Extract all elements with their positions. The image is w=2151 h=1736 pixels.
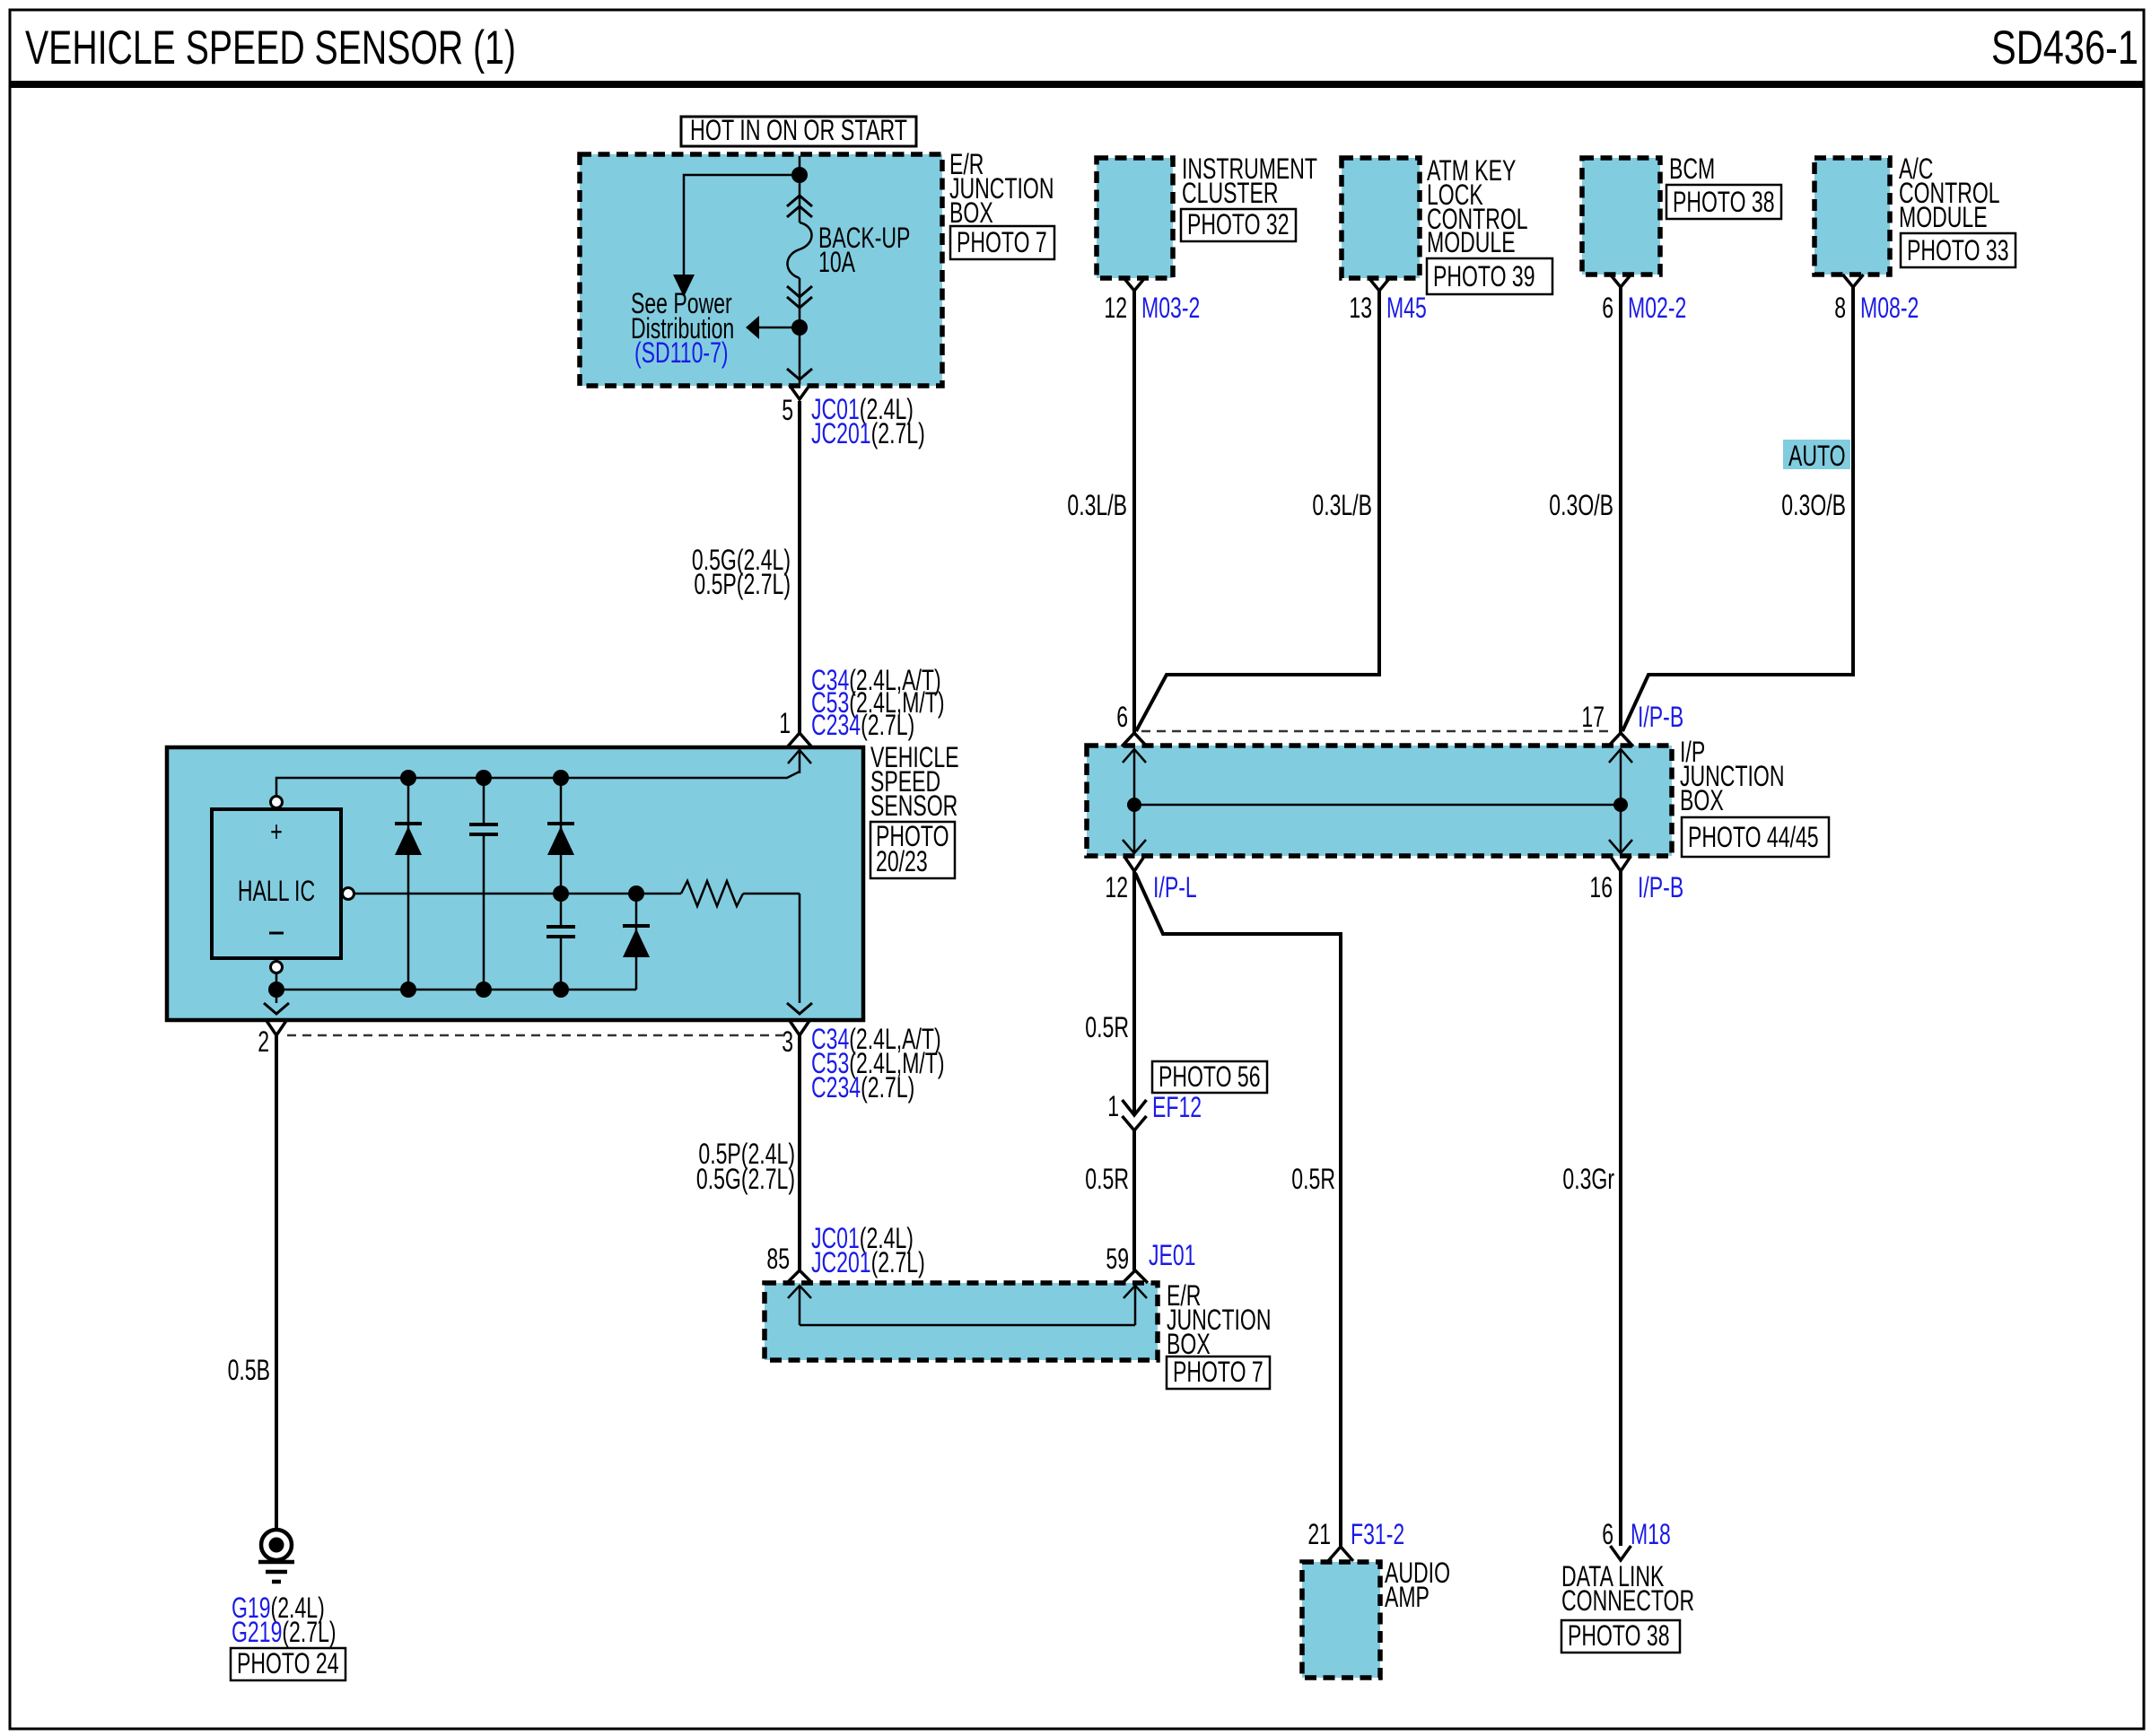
VSS internal top rail xyxy=(276,772,800,796)
svg-text:SD436-1: SD436-1 xyxy=(1991,22,2138,74)
instrument cluster pin 12 connector xyxy=(1124,278,1145,291)
audio amp box xyxy=(1302,1562,1380,1678)
svg-text:PHOTO 38: PHOTO 38 xyxy=(1568,1619,1670,1652)
svg-text:(SD110-7): (SD110-7) xyxy=(634,336,729,369)
PHOTO 33 label xyxy=(1901,233,2015,267)
I/P pin 6 connector xyxy=(1122,733,1147,746)
wire branch to See Power Distribution xyxy=(684,175,800,275)
svg-text:C234: C234 xyxy=(811,709,861,741)
svg-text:G219: G219 xyxy=(232,1616,282,1648)
svg-text:PHOTO 56: PHOTO 56 xyxy=(1159,1060,1261,1093)
svg-text:6: 6 xyxy=(1116,701,1128,733)
svg-text:JC201: JC201 xyxy=(811,1246,871,1278)
svg-text:PHOTO 38: PHOTO 38 xyxy=(1673,186,1775,218)
svg-text:21: 21 xyxy=(1307,1518,1331,1550)
header divider xyxy=(10,81,2144,88)
node dot at fuse top xyxy=(791,167,808,183)
svg-text:MODULE: MODULE xyxy=(1899,201,1988,233)
svg-text:0.5B: 0.5B xyxy=(228,1354,270,1386)
E/R junction box (lower) xyxy=(765,1283,1158,1360)
wire I/P pin16 to data link connector xyxy=(1619,871,1622,1546)
svg-text:0.3O/B: 0.3O/B xyxy=(1549,489,1613,521)
svg-text:0.5G(2.7L): 0.5G(2.7L) xyxy=(696,1163,795,1195)
VSS pin 3 connector xyxy=(790,1020,810,1035)
svg-text:(2.7L): (2.7L) xyxy=(871,1246,925,1278)
resistor R1 xyxy=(681,881,743,906)
PHOTO 7 label (top) xyxy=(950,226,1054,259)
capacitor C1 branch xyxy=(483,778,485,824)
PHOTO 38 label (data link) xyxy=(1561,1620,1680,1653)
svg-text:17: 17 xyxy=(1581,701,1605,733)
svg-text:JE01: JE01 xyxy=(1149,1239,1196,1271)
svg-text:6: 6 xyxy=(1602,292,1613,324)
node dot at fuse bottom xyxy=(791,319,808,336)
PHOTO 24 label xyxy=(231,1648,345,1680)
svg-text:+: + xyxy=(270,816,283,848)
svg-text:(2.7L): (2.7L) xyxy=(282,1616,336,1648)
ground G19/G219 xyxy=(261,1530,292,1560)
svg-text:PHOTO 7: PHOTO 7 xyxy=(1173,1356,1263,1388)
svg-text:12: 12 xyxy=(1104,292,1127,324)
BCM box xyxy=(1582,158,1660,275)
A/C pin 8 connector xyxy=(1843,275,1864,287)
PHOTO 38 label (BCM) xyxy=(1666,185,1781,219)
svg-text:CONNECTOR: CONNECTOR xyxy=(1561,1584,1694,1617)
hall IC box xyxy=(212,809,341,958)
svg-text:JC201: JC201 xyxy=(811,417,871,449)
E/R lower internal bus xyxy=(799,1286,801,1325)
diode D1 branch xyxy=(407,778,410,990)
svg-text:12: 12 xyxy=(1105,871,1128,903)
svg-text:BOX: BOX xyxy=(1680,784,1724,816)
svg-text:(2.7L): (2.7L) xyxy=(861,1071,914,1104)
svg-text:0.3O/B: 0.3O/B xyxy=(1781,489,1846,521)
I/P pin 12 connector xyxy=(1124,856,1145,871)
pin 5 connector xyxy=(790,385,810,399)
svg-text:BOX: BOX xyxy=(949,196,993,229)
wire pin5 to VSS pin1 xyxy=(798,401,801,733)
svg-text:1: 1 xyxy=(1107,1090,1119,1122)
svg-text:13: 13 xyxy=(1349,292,1372,324)
svg-text:10A: 10A xyxy=(818,246,855,278)
svg-text:I/P-B: I/P-B xyxy=(1638,871,1683,903)
PHOTO 32 label xyxy=(1181,209,1296,241)
PHOTO 20/23 label xyxy=(870,822,955,878)
VSS internal bottom rail xyxy=(276,989,636,991)
svg-text:PHOTO 33: PHOTO 33 xyxy=(1907,234,2009,266)
VSS connector dashed boundary xyxy=(287,1034,789,1037)
svg-text:M02-2: M02-2 xyxy=(1628,292,1686,324)
svg-text:HALL IC: HALL IC xyxy=(238,875,315,907)
diode D3 branch xyxy=(635,894,638,990)
svg-text:BCM: BCM xyxy=(1669,153,1715,185)
svg-text:F31-2: F31-2 xyxy=(1351,1518,1404,1550)
pin 85 connector xyxy=(787,1270,812,1283)
svg-text:59: 59 xyxy=(1106,1243,1129,1275)
svg-text:AUTO: AUTO xyxy=(1788,440,1846,472)
HOT IN ON OR START label xyxy=(681,117,916,146)
wire I/P pin12 to EF12 and JE01 xyxy=(1132,871,1136,1112)
svg-text:0.3Gr: 0.3Gr xyxy=(1562,1163,1614,1195)
hall IC output rail with resistor xyxy=(343,888,354,900)
svg-text:8: 8 xyxy=(1834,292,1846,324)
wire VSS pin2 to ground xyxy=(275,1035,278,1530)
E/R junction box (top) xyxy=(580,154,942,386)
svg-text:MODULE: MODULE xyxy=(1427,226,1516,258)
data link M18 connector xyxy=(1611,1546,1631,1560)
ATM pin 13 connector xyxy=(1369,278,1390,291)
svg-text:PHOTO 32: PHOTO 32 xyxy=(1187,208,1290,240)
hall IC bottom terminal xyxy=(271,962,283,973)
svg-text:HOT IN ON OR START: HOT IN ON OR START xyxy=(690,114,907,146)
svg-text:AMP: AMP xyxy=(1385,1581,1430,1613)
pin 59 connector xyxy=(1123,1270,1148,1283)
svg-text:20/23: 20/23 xyxy=(876,845,928,877)
I/P internal bus xyxy=(1133,749,1136,805)
instrument cluster box xyxy=(1097,158,1173,278)
vehicle speed sensor box xyxy=(167,747,863,1020)
svg-text:(2.7L): (2.7L) xyxy=(871,417,925,449)
svg-text:0.5R: 0.5R xyxy=(1085,1163,1129,1195)
svg-text:5: 5 xyxy=(782,394,793,426)
svg-text:M18: M18 xyxy=(1631,1518,1671,1550)
svg-text:VEHICLE SPEED SENSOR (1): VEHICLE SPEED SENSOR (1) xyxy=(25,22,516,74)
svg-text:C234: C234 xyxy=(811,1071,861,1104)
I/P pin 16 connector xyxy=(1611,856,1631,871)
diode D2 / capacitor C2 branch xyxy=(560,778,563,927)
I/P pin 17 connector xyxy=(1608,733,1633,746)
PHOTO 44/45 label xyxy=(1682,817,1829,857)
svg-text:85: 85 xyxy=(766,1243,790,1275)
hall IC top terminal xyxy=(271,797,283,808)
svg-text:CLUSTER: CLUSTER xyxy=(1182,177,1279,209)
wire cluster to I/P pin 6 xyxy=(1132,291,1136,733)
hall bottom connection xyxy=(275,973,278,1003)
svg-text:PHOTO 7: PHOTO 7 xyxy=(957,226,1047,258)
left arrow from node xyxy=(759,327,800,329)
wire VSS pin3 to E/R 85 xyxy=(798,1035,801,1270)
connector boundary dashed line above I/P box xyxy=(1141,730,1613,733)
svg-text:0.5P(2.7L): 0.5P(2.7L) xyxy=(694,568,791,600)
svg-text:M08-2: M08-2 xyxy=(1860,292,1919,324)
svg-text:M03-2: M03-2 xyxy=(1141,292,1200,324)
ATM key lock control module box xyxy=(1342,158,1420,278)
svg-text:SENSOR: SENSOR xyxy=(870,789,957,822)
svg-text:3: 3 xyxy=(782,1025,793,1058)
svg-text:16: 16 xyxy=(1589,871,1613,903)
wire to pin 3 xyxy=(799,894,801,1003)
svg-text:0.5R: 0.5R xyxy=(1085,1011,1129,1043)
svg-text:M45: M45 xyxy=(1386,292,1427,324)
PHOTO 7 label (lower) xyxy=(1167,1357,1270,1389)
BCM pin 6 connector xyxy=(1611,275,1631,287)
wire stub from box top to node xyxy=(799,156,801,175)
fuse BACK-UP 10A wire with arrows xyxy=(799,175,801,222)
svg-text:EF12: EF12 xyxy=(1152,1091,1202,1123)
svg-text:0.5R: 0.5R xyxy=(1291,1163,1335,1195)
PHOTO 39 label xyxy=(1427,258,1552,294)
svg-text:2: 2 xyxy=(258,1025,269,1058)
svg-text:I/P-L: I/P-L xyxy=(1153,871,1197,903)
svg-text:PHOTO 44/45: PHOTO 44/45 xyxy=(1688,821,1819,853)
I/P junction box xyxy=(1087,746,1672,856)
svg-text:PHOTO 39: PHOTO 39 xyxy=(1433,260,1535,292)
A/C control module box xyxy=(1814,158,1890,275)
svg-text:I/P-B: I/P-B xyxy=(1638,701,1683,733)
wire from node to pin 5 xyxy=(799,327,801,384)
svg-text:PHOTO 24: PHOTO 24 xyxy=(237,1647,339,1679)
svg-text:0.3L/B: 0.3L/B xyxy=(1312,489,1372,521)
svg-text:6: 6 xyxy=(1602,1518,1613,1550)
PHOTO 56 label xyxy=(1152,1061,1267,1093)
wire ATM M45 to I/P pin 6 xyxy=(1136,291,1379,731)
VSS pin 1 connector xyxy=(787,733,812,747)
arrow to power distribution xyxy=(673,275,695,297)
audio amp pin 21 connector xyxy=(1328,1547,1353,1561)
VSS pin 2 connector xyxy=(267,1020,287,1035)
svg-text:1: 1 xyxy=(779,707,791,739)
AUTO tag xyxy=(1783,440,1850,469)
branch wire to audio amp xyxy=(1135,873,1341,1547)
svg-text:0.3L/B: 0.3L/B xyxy=(1067,489,1127,521)
EF12 inline connector xyxy=(1123,1100,1147,1115)
wire BCM to I/P pin 17 xyxy=(1619,287,1622,733)
svg-text:(2.7L): (2.7L) xyxy=(861,709,914,741)
wire A/C to I/P pin 17 xyxy=(1622,287,1853,731)
